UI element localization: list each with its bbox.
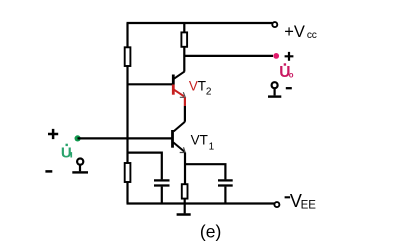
node input (green dot): [75, 135, 81, 141]
label U̇o (output voltage, magenta): [279, 63, 294, 81]
resistor R2 (lower left): [125, 163, 131, 182]
ground (input): [72, 159, 88, 173]
label -VEE: [285, 191, 317, 212]
label +Vcc: [284, 23, 316, 41]
svg-text:1: 1: [209, 141, 215, 152]
plus sign (input): [48, 129, 58, 139]
svg-text:2: 2: [206, 87, 212, 98]
svg-text:cc: cc: [307, 30, 317, 41]
resistor R4 (VT1 emitter): [182, 184, 188, 198]
wire emitter branch to C2: [185, 164, 225, 179]
capacitor C1 (base bypass): [154, 180, 170, 203]
wire R3 top lead: [183, 23, 185, 32]
ground (output): [268, 82, 281, 96]
resistor R3 (upper right, collector load): [181, 32, 187, 46]
label VT2: [189, 79, 212, 98]
wire left vertical (top rail to R1): [126, 23, 128, 47]
svg-text:EE: EE: [301, 200, 317, 212]
wire R4 bottom to rail: [184, 199, 186, 204]
ground (main, below bottom rail): [177, 204, 191, 215]
wire VT1 emitter vertical: [184, 153, 186, 185]
wire VT2 emitter vertical (red then black) down to VT1 collector: [184, 97, 186, 121]
svg-text:VT: VT: [191, 132, 208, 147]
wire left vertical (R2 to bottom rail): [126, 182, 128, 204]
svg-text:o: o: [289, 70, 294, 79]
terminal output (magenta dot): [273, 53, 279, 59]
svg-text:U: U: [61, 144, 72, 161]
terminal -VEE: [274, 202, 279, 207]
svg-text:+V: +V: [284, 23, 305, 41]
wire input to VT1 base: [78, 137, 173, 139]
svg-text:V: V: [189, 79, 198, 94]
label U̇i (input voltage, green): [61, 144, 72, 162]
label VT1: [191, 132, 215, 152]
wire left vertical (R1 to R2, through base junctions): [126, 66, 128, 163]
wire bottom rail (-VEE rail): [127, 202, 275, 204]
minus sign (input): [45, 170, 52, 173]
wire base RC tap (horizontal then down to C1): [128, 153, 162, 180]
transistor VT1 (all black): [173, 122, 186, 153]
capacitor C2 (emitter bypass): [218, 180, 233, 203]
wire top rail (+Vcc rail): [127, 22, 273, 24]
minus sign (output): [286, 87, 292, 89]
terminal +Vcc: [272, 22, 277, 27]
wire VT2 base: [128, 83, 173, 85]
svg-text:T: T: [198, 79, 206, 94]
wire R3 bottom to VT2 collector: [183, 47, 185, 72]
transistor VT2 (bar black top / red bottom, collector up-right, red emitter w/ arrow): [173, 71, 185, 97]
plus sign (output): [285, 52, 294, 61]
wire output branch: [184, 55, 273, 57]
svg-text:(e): (e): [200, 222, 221, 242]
resistor R1 (upper left): [125, 47, 131, 66]
